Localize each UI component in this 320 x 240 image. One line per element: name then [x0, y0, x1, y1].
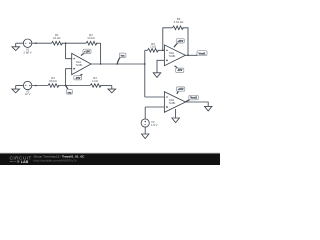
svg-text:10 kΩ: 10 kΩ — [53, 36, 60, 40]
svg-text:1 kΩ: 1 kΩ — [150, 45, 156, 49]
svg-text:LAB: LAB — [21, 160, 29, 164]
svg-text:Vout2: Vout2 — [190, 97, 197, 100]
svg-text:TL081: TL081 — [169, 55, 176, 58]
svg-text:12 V: 12 V — [25, 92, 31, 96]
svg-text:TL081: TL081 — [169, 102, 176, 105]
svg-text:10 kΩ: 10 kΩ — [87, 36, 94, 40]
svg-text:+15V: +15V — [84, 50, 90, 53]
svg-text:2.88 V: 2.88 V — [24, 51, 32, 55]
svg-text:99 kΩ: 99 kΩ — [49, 79, 56, 83]
svg-text:http://circuitlab.com/c6442976: http://circuitlab.com/c6442976c7t/ — [34, 158, 77, 162]
svg-text:TL081: TL081 — [76, 64, 83, 67]
svg-text:-15V: -15V — [177, 69, 183, 72]
svg-text:+15V: +15V — [177, 40, 183, 43]
svg-text:4.64 kΩ: 4.64 kΩ — [174, 20, 184, 24]
svg-text:+15V: +15V — [178, 88, 184, 91]
svg-text:1 kΩ: 1 kΩ — [92, 79, 98, 83]
svg-text:1.8 V: 1.8 V — [151, 123, 158, 127]
svg-text:-15V: -15V — [75, 77, 81, 80]
svg-text:Vout1: Vout1 — [198, 51, 206, 55]
